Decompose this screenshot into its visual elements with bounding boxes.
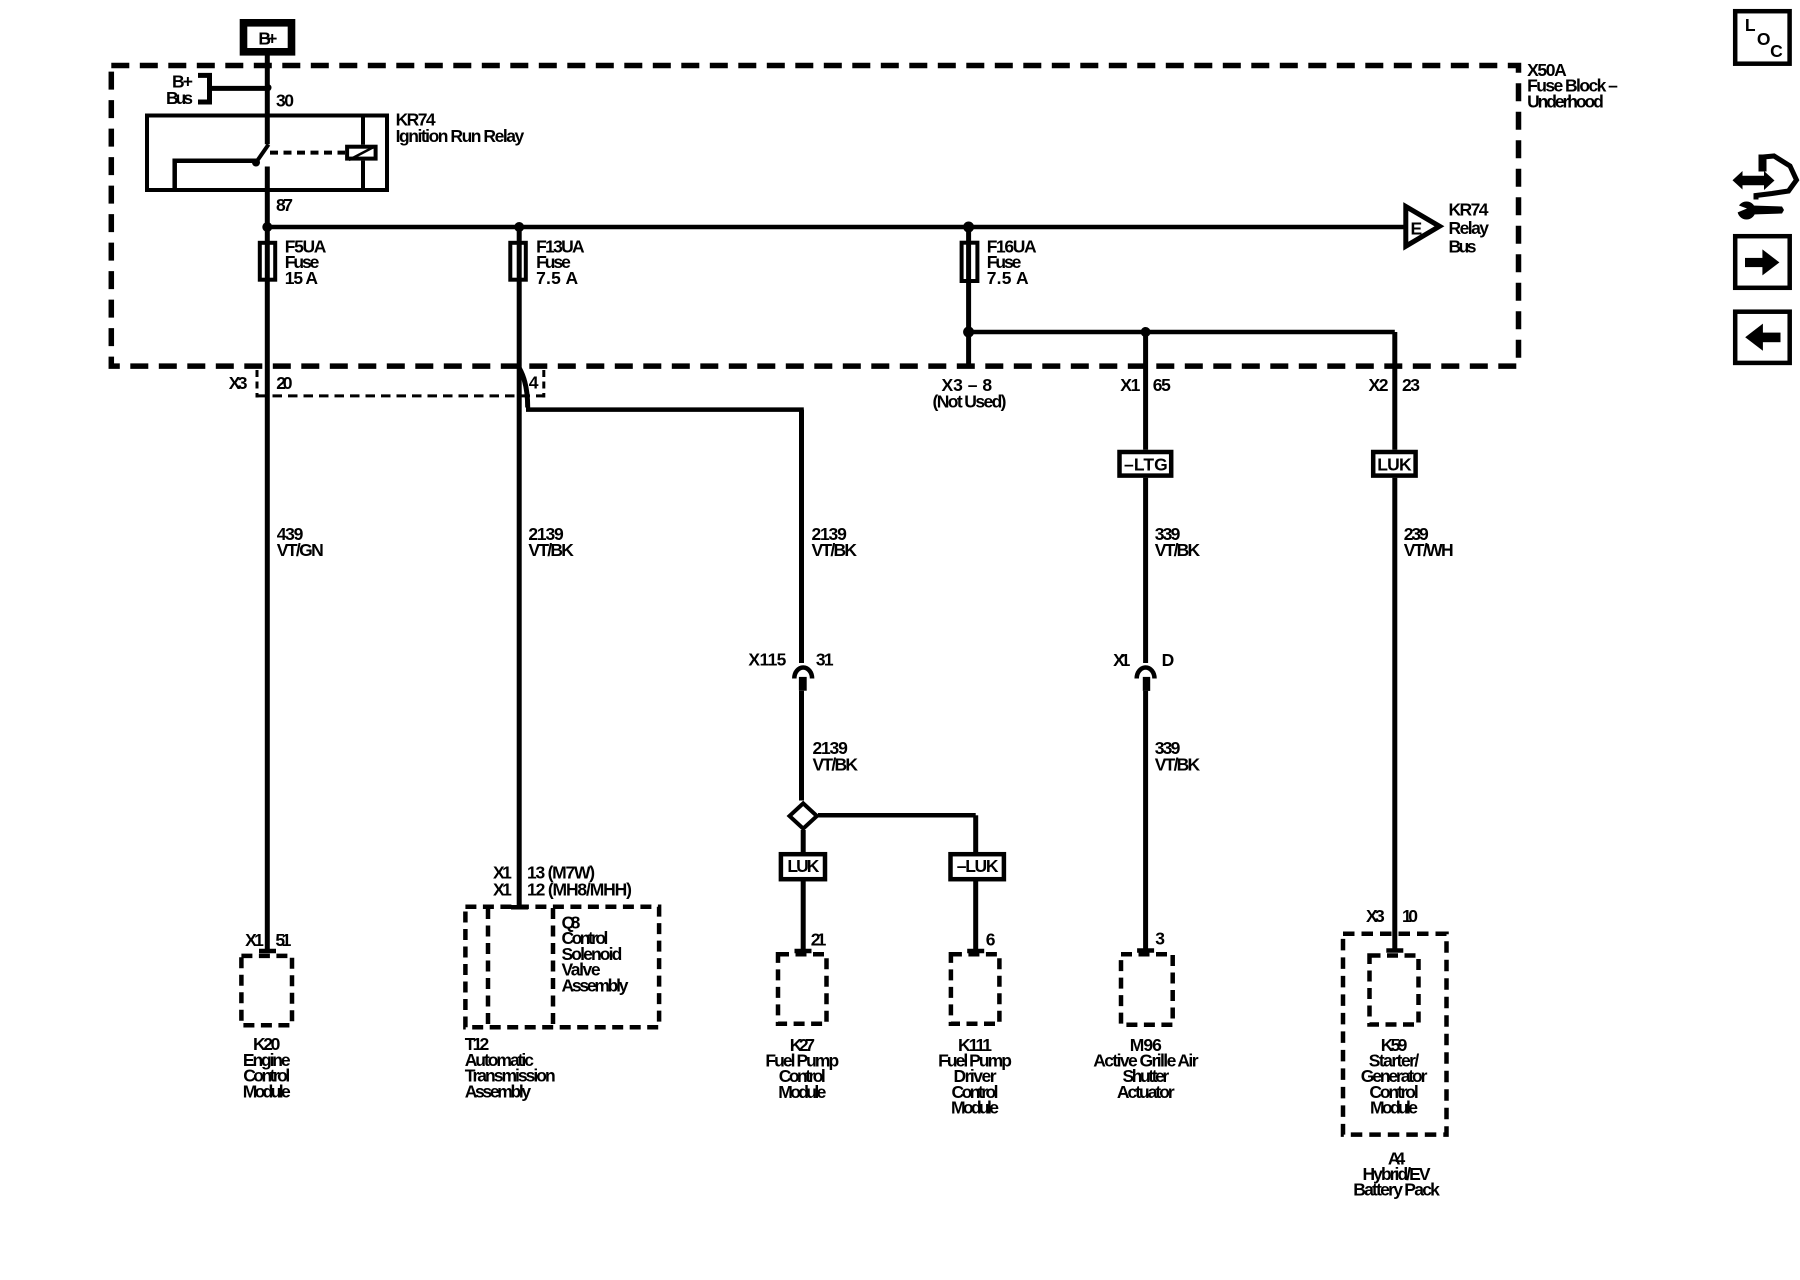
svg-text:87: 87: [276, 195, 293, 215]
svg-text:Actuator: Actuator: [1117, 1082, 1175, 1102]
svg-text:VT/BK: VT/BK: [812, 540, 858, 560]
svg-text:Ignition Run Relay: Ignition Run Relay: [396, 126, 525, 146]
svg-text:X3: X3: [229, 373, 248, 393]
svg-text:4: 4: [529, 372, 539, 392]
svg-text:–LTG: –LTG: [1124, 454, 1168, 474]
svg-text:LUK: LUK: [787, 856, 819, 876]
svg-text:Module: Module: [243, 1082, 291, 1102]
svg-text:23: 23: [1402, 375, 1420, 395]
svg-text:21: 21: [811, 929, 827, 949]
svg-text:VT/WH: VT/WH: [1404, 540, 1454, 560]
svg-text:–LUK: –LUK: [957, 856, 999, 876]
svg-text:10: 10: [1402, 906, 1418, 926]
svg-text:Module: Module: [951, 1098, 999, 1118]
svg-text:(Not Used): (Not Used): [933, 391, 1007, 411]
svg-text:KR74: KR74: [1449, 200, 1489, 220]
svg-text:L: L: [1745, 15, 1756, 35]
svg-text:31: 31: [816, 650, 834, 670]
svg-text:Underhood: Underhood: [1527, 91, 1604, 111]
svg-text:X1: X1: [245, 930, 264, 950]
svg-text:VT/BK: VT/BK: [813, 755, 859, 775]
svg-text:X2: X2: [1369, 375, 1389, 395]
svg-text:20: 20: [276, 373, 292, 393]
svg-text:B+: B+: [258, 29, 277, 49]
svg-text:6: 6: [986, 929, 996, 949]
svg-text:Relay: Relay: [1449, 218, 1490, 238]
svg-text:VT/BK: VT/BK: [1155, 755, 1201, 775]
svg-text:X3: X3: [1366, 906, 1385, 926]
svg-text:51: 51: [275, 930, 291, 950]
svg-text:7.5 A: 7.5 A: [987, 268, 1029, 288]
svg-text:X1: X1: [1120, 375, 1140, 395]
svg-text:VT/BK: VT/BK: [1155, 540, 1201, 560]
svg-text:X1: X1: [1113, 650, 1130, 670]
svg-text:15 A: 15 A: [285, 268, 319, 288]
svg-text:X1: X1: [493, 880, 512, 900]
svg-text:VT/GN: VT/GN: [277, 540, 324, 560]
svg-text:C: C: [1770, 41, 1783, 61]
svg-text:Assembly: Assembly: [562, 975, 629, 995]
svg-text:7.5 A: 7.5 A: [536, 268, 578, 288]
svg-text:VT/BK: VT/BK: [528, 540, 574, 560]
svg-text:30: 30: [276, 90, 294, 110]
svg-text:E: E: [1411, 218, 1423, 238]
svg-text:Bus: Bus: [166, 88, 193, 108]
svg-text:O: O: [1757, 29, 1771, 49]
svg-text:3: 3: [1155, 928, 1165, 948]
svg-text:D: D: [1162, 650, 1175, 670]
svg-text:LUK: LUK: [1377, 454, 1412, 474]
svg-text:Battery Pack: Battery Pack: [1353, 1180, 1440, 1200]
svg-text:Module: Module: [778, 1082, 826, 1102]
svg-text:Module: Module: [1370, 1098, 1418, 1118]
svg-text:65: 65: [1153, 375, 1171, 395]
svg-text:X115: X115: [748, 650, 786, 670]
svg-text:Assembly: Assembly: [465, 1082, 532, 1102]
svg-text:Bus: Bus: [1449, 236, 1477, 256]
svg-text:12 (MH8/MHH): 12 (MH8/MHH): [527, 880, 632, 900]
